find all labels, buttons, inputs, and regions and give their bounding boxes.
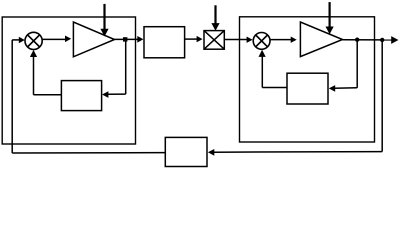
filter block H2 (right inner feedback box) xyxy=(287,73,328,104)
amplifier A1 xyxy=(73,22,114,57)
subsystem box U1 (left PLL block) xyxy=(2,17,135,144)
node N2 xyxy=(355,38,359,42)
wire S2 to A2 xyxy=(270,37,297,43)
feedback block G1 (bottom box) xyxy=(165,137,207,166)
wire G1 to S1 (global feedback return) xyxy=(12,37,165,153)
wire H2 to S2 xyxy=(259,50,288,88)
wire H1 to S1 xyxy=(30,50,62,95)
input arrow V1 (top arrow into A1) xyxy=(100,4,108,37)
node N1 (output of A1) xyxy=(123,37,127,41)
wire A1 to F1 xyxy=(115,36,144,43)
wire F1 to M1 xyxy=(185,36,203,42)
wire N1 down to H1 xyxy=(102,39,126,98)
subsystem box U2 (right PLL block) xyxy=(240,17,375,142)
wire A2 to output xyxy=(343,36,399,44)
node N3 xyxy=(380,38,384,42)
summing junction S1 xyxy=(25,32,42,49)
summing junction S2 xyxy=(253,33,270,50)
wire N3 down to G1 (global feedback) xyxy=(208,40,382,156)
input arrow V2 (top arrow into M1) xyxy=(211,5,219,31)
wire M1 to S2 xyxy=(224,37,252,43)
wire S1 to A1 xyxy=(42,36,71,43)
wire N2 down to H2 xyxy=(329,40,357,92)
amplifier A2 xyxy=(300,22,342,57)
filter block H1 (left inner feedback box) xyxy=(61,81,101,111)
mixer M1 (multiplier box with X) xyxy=(204,31,224,50)
input arrow V3 (top arrow into A2) xyxy=(326,2,334,34)
block F1 (middle coupling box) xyxy=(144,27,185,58)
